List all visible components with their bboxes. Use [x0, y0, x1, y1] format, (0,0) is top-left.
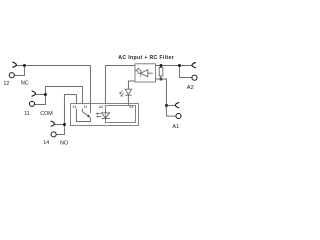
relay coil box [105, 106, 135, 123]
terminal 12 chevron [12, 62, 16, 67]
LED arrows [120, 91, 123, 94]
relay suppressor diode D1 [101, 113, 109, 118]
wire terminal 14 test-socket link [56, 124, 64, 134]
AC box diode [137, 72, 141, 74]
wire terminal A1 test-socket link [166, 105, 175, 116]
svg-text:11: 11 [84, 105, 88, 109]
wire terminal 12 test-socket link [14, 65, 24, 75]
svg-text:A1: A1 [172, 124, 179, 130]
status LED V1 [125, 89, 131, 95]
wire terminal 11 test-socket link [35, 94, 46, 104]
svg-text:12: 12 [3, 81, 9, 87]
terminal 14 chevron [51, 121, 55, 126]
node NO junction [63, 123, 66, 126]
wire terminal A2 test-socket link [179, 65, 191, 77]
wire NO net from terminal 14 to relay pin 14 [55, 94, 77, 124]
resistor R1 bottom lead [160, 76, 162, 79]
wire LED to coil top [127, 95, 129, 105]
wire A1 net from AC box bottom to terminal A1 [156, 79, 176, 106]
svg-text:COM: COM [40, 111, 53, 117]
svg-text:11: 11 [24, 111, 30, 117]
node resistor top junction [159, 64, 162, 67]
wire A2 net from AC box to terminal A2 [156, 64, 192, 66]
wire LED branch from AC box to coil [128, 81, 135, 89]
terminal 12 socket circle [9, 73, 14, 78]
wire COM net from terminal 11 to relay pin 11 [36, 86, 83, 104]
relay box K1 outline [71, 104, 139, 126]
svg-text:A2: A2 [99, 105, 103, 109]
terminal A1 chevron [175, 102, 179, 107]
relay diode arrows [96, 113, 101, 115]
AC input + RC filter box [135, 64, 156, 82]
AC box diode arrows [136, 68, 140, 72]
svg-text:14: 14 [72, 105, 76, 109]
terminal 11 socket circle [29, 101, 34, 106]
node A2 socket junction [178, 64, 181, 67]
wire NC net from terminal 12 to relay pin 12 [16, 65, 90, 104]
node NC junction [23, 64, 26, 67]
resistor R1 top lead [160, 65, 162, 67]
node resistor bottom junction [159, 77, 162, 80]
node COM junction [44, 93, 47, 96]
svg-text:NO: NO [60, 140, 68, 146]
terminal A2 socket circle [192, 75, 197, 80]
svg-text:14: 14 [43, 140, 49, 146]
svg-text:A1: A1 [129, 105, 133, 109]
terminal 11 chevron [32, 91, 36, 96]
terminal A1 socket circle [176, 113, 181, 118]
contact NC fixed contact from pin 12 [89, 104, 91, 113]
terminal 14 socket circle [51, 132, 56, 137]
contact NO fixed path from pin 14 [76, 109, 90, 122]
svg-text:NC: NC [21, 81, 29, 87]
resistor R1 [159, 68, 163, 77]
terminal A2 chevron [192, 62, 196, 67]
wire coil pin A2 riser to AC filter box [105, 65, 135, 103]
svg-text:AC Input + RC Filter: AC Input + RC Filter [118, 55, 174, 61]
node A1 junction [165, 104, 168, 107]
contact pole from pin 11 [81, 109, 83, 112]
svg-text:A2: A2 [187, 85, 194, 91]
contact movable arm with arrow [82, 112, 87, 116]
